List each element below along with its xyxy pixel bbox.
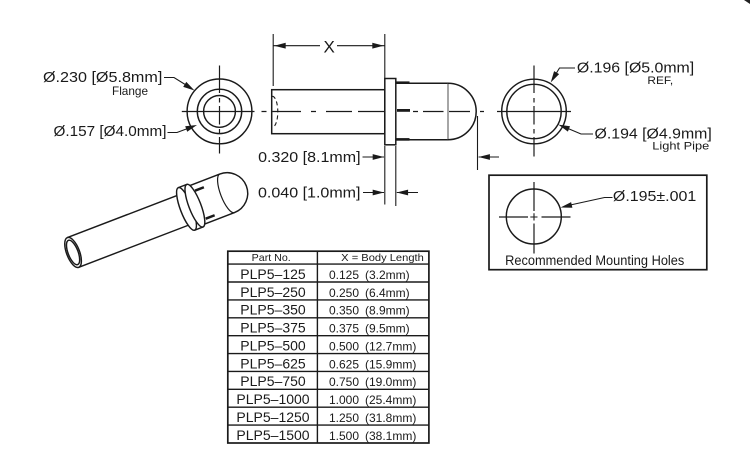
svg-text:PLP5–500: PLP5–500 <box>240 338 306 354</box>
svg-text:0.750: 0.750 <box>329 375 359 389</box>
svg-text:PLP5–1000: PLP5–1000 <box>236 391 309 407</box>
svg-text:1.250: 1.250 <box>329 411 359 425</box>
0.320 dimension leader left <box>363 156 385 158</box>
svg-text:(31.8mm): (31.8mm) <box>365 411 416 425</box>
3D flange rim edges <box>178 184 203 230</box>
O.230 leader line <box>164 78 190 88</box>
svg-text:PLP5–1500: PLP5–1500 <box>236 427 309 443</box>
3D dome junction arc <box>214 174 235 215</box>
mounting hole horizontal centerline <box>499 216 571 218</box>
flange front view middle circle <box>197 89 241 133</box>
side view retention tab middle <box>397 109 410 112</box>
3D perspective view of light pipe <box>59 165 255 276</box>
3D flange back ellipse <box>173 185 201 232</box>
3D tube mouth inner ellipse <box>64 239 83 267</box>
3D tube mouth outer ellipse <box>61 235 85 269</box>
recommended mounting holes box <box>489 175 707 270</box>
dome tip extension line <box>477 116 479 170</box>
mounting hole circle <box>506 189 561 244</box>
svg-text:(8.9mm): (8.9mm) <box>365 304 410 318</box>
svg-text:(9.5mm): (9.5mm) <box>365 322 410 336</box>
svg-text:Flange: Flange <box>112 84 148 98</box>
svg-text:(3.2mm): (3.2mm) <box>365 268 410 282</box>
3D tube top edge <box>67 194 180 238</box>
side view hidden bore arc at tube end <box>272 96 278 127</box>
svg-text:PLP5–125: PLP5–125 <box>240 266 306 282</box>
svg-text:(15.9mm): (15.9mm) <box>365 357 416 371</box>
3D retention tab bottom <box>206 215 215 218</box>
svg-text:Ø.157 [Ø4.0mm]: Ø.157 [Ø4.0mm] <box>54 123 167 140</box>
svg-text:PLP5–625: PLP5–625 <box>240 355 306 371</box>
part number table frame <box>228 251 429 443</box>
svg-text:PLP5–350: PLP5–350 <box>240 302 306 318</box>
svg-text:0.125: 0.125 <box>329 268 359 282</box>
table column divider <box>316 251 318 443</box>
side view retention tab top <box>397 81 410 84</box>
svg-text:Light Pipe: Light Pipe <box>652 141 709 153</box>
3D flange front ellipse <box>181 182 209 229</box>
svg-text:X: X <box>324 38 335 57</box>
O.157 leader line <box>168 128 189 132</box>
svg-text:PLP5–250: PLP5–250 <box>240 284 306 300</box>
svg-text:0.320 [8.1mm]: 0.320 [8.1mm] <box>258 149 361 166</box>
side view LED head body <box>396 83 448 139</box>
svg-text:Recommended Mounting Holes: Recommended Mounting Holes <box>505 253 684 268</box>
vertical centerline of light pipe front view <box>533 66 535 157</box>
svg-text:(38.1mm): (38.1mm) <box>365 429 416 443</box>
O.196 leader line <box>554 68 575 77</box>
svg-text:(12.7mm): (12.7mm) <box>365 340 416 354</box>
mounting hole vertical centerline <box>533 182 535 254</box>
side view retention tab bottom <box>397 138 410 141</box>
svg-text:PLP5–750: PLP5–750 <box>240 373 306 389</box>
svg-text:PLP5–375: PLP5–375 <box>240 320 306 336</box>
X dimension extension line right <box>384 34 386 79</box>
svg-text:REF,: REF, <box>647 75 673 87</box>
horizontal centerline through front views and side view <box>182 111 571 113</box>
flange left extension line <box>384 146 386 205</box>
svg-text:Ø.195±.001: Ø.195±.001 <box>613 189 696 205</box>
3D tube bottom edge <box>79 224 192 268</box>
svg-text:X = Body Length: X = Body Length <box>341 252 424 264</box>
table row lines <box>228 264 429 425</box>
svg-text:Ø.196 [Ø5.0mm]: Ø.196 [Ø5.0mm] <box>577 60 694 77</box>
X dimension extension line left <box>272 34 274 86</box>
svg-text:0.040 [1.0mm]: 0.040 [1.0mm] <box>258 184 361 201</box>
svg-text:1.500: 1.500 <box>329 429 359 443</box>
svg-text:0.625: 0.625 <box>329 357 359 371</box>
0.040 dimension arrow right <box>397 192 418 194</box>
svg-text:1.000: 1.000 <box>329 393 359 407</box>
light pipe front view inner circle (O.194 light pipe) <box>507 84 561 138</box>
svg-text:0.250: 0.250 <box>329 286 359 300</box>
scan artifact top-right corner <box>744 0 750 4</box>
side view dome junction line <box>447 83 449 139</box>
svg-text:Part No.: Part No. <box>252 252 291 264</box>
O.194 leader line <box>568 129 593 135</box>
svg-text:(6.4mm): (6.4mm) <box>365 286 410 300</box>
svg-text:0.500: 0.500 <box>329 340 359 354</box>
X dimension line <box>273 45 385 47</box>
side view flange <box>385 79 396 145</box>
flange front view inner circle (O.157 bore) <box>204 96 236 128</box>
3D LED head silhouette <box>189 167 254 225</box>
side view dome <box>448 83 476 139</box>
svg-text:0.375: 0.375 <box>329 322 359 336</box>
svg-text:(19.0mm): (19.0mm) <box>365 375 416 389</box>
O.195 leader line <box>568 198 613 206</box>
light pipe front view outer circle (O.196 REF) <box>502 79 567 144</box>
svg-text:0.350: 0.350 <box>329 304 359 318</box>
svg-text:(25.4mm): (25.4mm) <box>365 393 416 407</box>
3D retention tab top <box>195 187 204 190</box>
0.320 dimension arrow right <box>479 156 499 158</box>
0.040 dimension leader left <box>363 192 384 194</box>
side view tube body <box>272 90 385 134</box>
flange right extension line <box>395 146 397 206</box>
mounting hole center cross <box>530 213 537 220</box>
flange front view outer circle (O.230 flange) <box>187 79 252 144</box>
vertical centerline of flange front view <box>219 66 221 154</box>
svg-text:PLP5–1250: PLP5–1250 <box>236 409 309 425</box>
